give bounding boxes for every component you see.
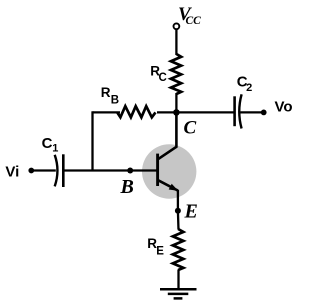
wire [175,93,177,113]
resistor RB [117,106,155,117]
capacitor C2 [235,94,242,128]
resistor RE [173,229,184,270]
svg-text:E: E [184,201,198,223]
node C junction [173,109,180,116]
svg-text:B: B [111,95,119,107]
wire [175,29,177,55]
terminal Vo [261,110,267,116]
svg-text:R: R [101,85,111,100]
wire [31,169,56,171]
svg-text:B: B [120,176,134,198]
wire [157,111,235,113]
svg-text:CC: CC [186,15,202,27]
svg-text:1: 1 [52,142,58,154]
wire [177,211,180,230]
capacitor C1 [55,154,64,187]
wire [91,111,93,170]
node E [175,208,181,214]
svg-text:C: C [159,72,167,84]
svg-text:2: 2 [246,82,252,94]
svg-text:Vi: Vi [5,163,19,180]
wire [241,111,264,113]
wire [63,169,158,171]
resistor RC [171,54,181,94]
terminal Vcc [174,23,180,29]
svg-text:E: E [156,246,164,258]
svg-text:Vo: Vo [275,98,293,115]
ground [160,289,197,298]
svg-text:C: C [42,135,53,152]
svg-text:C: C [184,118,197,139]
node B [127,168,133,174]
terminal Vi [28,168,34,174]
wire [177,270,179,291]
transistor Q1 [142,112,196,211]
wire [93,111,121,113]
